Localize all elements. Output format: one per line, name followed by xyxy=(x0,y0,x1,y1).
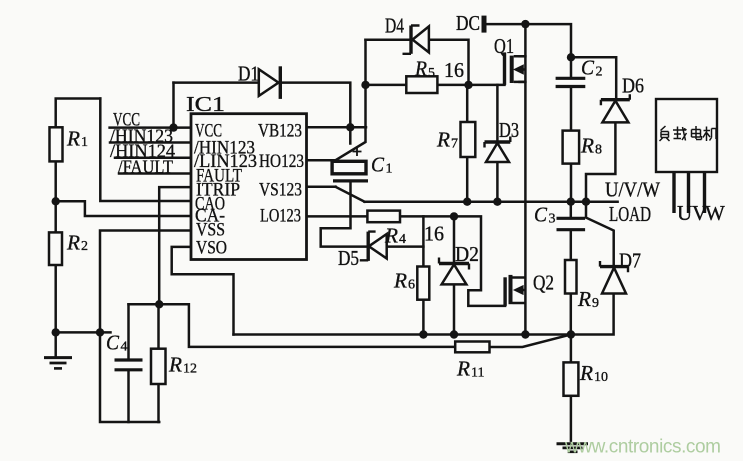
node VS/D3 xyxy=(493,198,501,206)
load motor CJK glyphs (drawn): 负载电机 xyxy=(660,126,718,141)
svg-text:R: R xyxy=(436,128,450,152)
glyph 载 xyxy=(673,127,687,141)
svg-text:C: C xyxy=(581,56,595,80)
wire D5 anode to R6 xyxy=(387,245,424,248)
node LO/D2 xyxy=(450,212,458,220)
wire D4 cathode link xyxy=(366,38,412,41)
svg-text:10: 10 xyxy=(594,370,608,385)
transistor Q1 xyxy=(505,52,526,85)
node VB/D1 xyxy=(346,123,354,131)
IC U1 box IC1 xyxy=(191,114,307,260)
resistor R12 xyxy=(151,349,166,384)
svg-text:12: 12 xyxy=(183,362,197,377)
zener D6 xyxy=(601,94,630,122)
wire C1 negative to D5 xyxy=(321,181,369,247)
svg-text:Q2: Q2 xyxy=(533,271,554,295)
node bus/R9/R10 xyxy=(567,330,575,338)
svg-text:U: U xyxy=(677,201,692,225)
wire VS line xyxy=(365,200,618,203)
svg-text:4: 4 xyxy=(399,232,406,247)
wire VS diagonal xyxy=(336,187,365,202)
svg-text:C: C xyxy=(534,203,548,227)
svg-text:R: R xyxy=(579,361,593,385)
wire D3 anode to VS xyxy=(496,162,499,202)
load motor box xyxy=(656,99,717,172)
wire C3 top lead xyxy=(570,202,573,219)
ground left xyxy=(44,358,72,369)
svg-text:D6: D6 xyxy=(622,74,644,98)
glyph 负 xyxy=(660,126,670,141)
wire D6 anode route to D7 xyxy=(586,122,615,266)
motor lead U xyxy=(672,172,675,213)
wire VCC input xyxy=(110,126,191,129)
resistor R7 xyxy=(461,122,476,157)
wire R10 chain xyxy=(570,335,573,441)
zener D3 xyxy=(485,137,511,163)
wire VCC up to D1 xyxy=(172,83,175,128)
node R12 top xyxy=(155,300,163,308)
svg-text:C: C xyxy=(106,331,120,355)
zener D2 xyxy=(439,258,469,285)
svg-text:/FAULT: /FAULT xyxy=(118,157,173,178)
wire R11 right diagonal xyxy=(490,335,571,348)
ground right xyxy=(557,444,589,452)
resistor R6 xyxy=(417,267,429,300)
wire C3/R9 chain xyxy=(570,230,573,335)
svg-text:LOAD: LOAD xyxy=(609,202,651,226)
resistor R4 xyxy=(367,211,400,223)
svg-text:5: 5 xyxy=(428,66,435,81)
svg-text:D2: D2 xyxy=(455,242,479,266)
wire R2 bottom stub xyxy=(56,331,111,334)
node C2 branch xyxy=(567,53,575,61)
svg-text:D4: D4 xyxy=(385,14,404,38)
svg-text:2: 2 xyxy=(81,239,88,254)
svg-text:R: R xyxy=(456,357,470,381)
wire D1 anode line xyxy=(174,81,259,84)
capacitor C3 xyxy=(557,218,586,229)
wire CA- step xyxy=(56,201,191,216)
wire /FAULT input xyxy=(119,172,191,175)
svg-text:8: 8 xyxy=(595,143,602,158)
svg-text:11: 11 xyxy=(471,366,484,381)
svg-text:1: 1 xyxy=(81,135,88,150)
node VS/C3 xyxy=(567,198,575,206)
svg-text:U/V/W: U/V/W xyxy=(605,178,660,202)
svg-text:3: 3 xyxy=(549,212,556,227)
wire C4/R12 node to R11 xyxy=(129,304,456,347)
capacitor C1 negative plate xyxy=(333,179,368,182)
wire VSS to ground rail xyxy=(100,231,191,423)
svg-text:IC1: IC1 xyxy=(186,92,225,116)
svg-text:D3: D3 xyxy=(499,118,519,142)
svg-text:1: 1 xyxy=(386,162,393,177)
wire R6 through xyxy=(422,216,425,334)
svg-text:VB123: VB123 xyxy=(258,121,302,142)
wire ground drop left xyxy=(54,332,57,357)
svg-text:www.cntronics.com: www.cntronics.com xyxy=(564,437,721,458)
svg-text:R: R xyxy=(168,353,182,377)
resistor R10 xyxy=(564,362,579,395)
wire ITRIP xyxy=(159,187,191,304)
svg-text:DC: DC xyxy=(456,11,480,35)
DIODES xyxy=(259,26,630,294)
diode D4 xyxy=(403,26,429,54)
zener D7 xyxy=(600,261,628,294)
wire R1 branch top xyxy=(56,99,101,202)
capacitor C4 xyxy=(115,360,143,370)
svg-text:Q1: Q1 xyxy=(494,34,514,58)
wire phase vertical xyxy=(524,24,527,334)
wire Q1 drain riser xyxy=(520,55,526,58)
wire VS123 pin xyxy=(307,186,336,189)
svg-text:D7: D7 xyxy=(619,249,641,273)
wire R7 through xyxy=(466,85,469,202)
wire R5 gate line xyxy=(366,84,505,87)
wire R2 chain xyxy=(54,201,57,332)
svg-text:R: R xyxy=(393,269,407,293)
wire C2/R8 chain xyxy=(570,87,573,202)
resistor R2 xyxy=(49,232,62,265)
wire VCC/CAO rail xyxy=(100,99,191,202)
wire D2 anode xyxy=(453,284,456,334)
diode D5 xyxy=(360,232,387,261)
svg-text:HO123: HO123 xyxy=(259,151,304,172)
node R2/ground xyxy=(52,328,60,336)
wire D4 anode link xyxy=(429,40,469,85)
node R5 left xyxy=(361,81,369,89)
wire DC rail xyxy=(484,24,571,78)
node bus/R6 xyxy=(419,330,427,338)
svg-text:R: R xyxy=(577,287,591,311)
wire VB123 pin xyxy=(307,126,367,129)
node R5 right xyxy=(464,81,472,89)
capacitor C1 positive plate box xyxy=(332,161,366,174)
svg-text:7: 7 xyxy=(451,137,458,152)
node VS/R7 xyxy=(463,198,471,206)
node R1/R2 xyxy=(52,197,60,205)
wire D1 cathode to VB node xyxy=(282,83,351,144)
svg-text:2: 2 xyxy=(596,65,603,80)
wire HO123 pin xyxy=(307,159,337,162)
MOSFETS xyxy=(505,52,526,306)
motor lead W xyxy=(703,172,706,213)
wire /HIN123 input xyxy=(110,141,191,144)
transistor Q2 xyxy=(505,275,525,306)
wire C4 top lead xyxy=(127,304,130,360)
wire R12 through xyxy=(157,304,160,422)
wire bottom bus xyxy=(234,294,614,335)
node bus/D2 xyxy=(450,330,458,338)
svg-text:W: W xyxy=(705,201,725,225)
svg-text:R: R xyxy=(414,57,427,81)
svg-text:R: R xyxy=(580,134,594,158)
resistor R5 xyxy=(406,76,437,93)
wire VSO route to bottom bus xyxy=(172,247,234,335)
svg-text:9: 9 xyxy=(592,296,599,311)
capacitor C2 xyxy=(556,78,586,86)
resistor R11 xyxy=(455,342,489,353)
resistor R1 xyxy=(50,127,63,161)
wire C4 bottom lead xyxy=(127,370,130,422)
wire LO123 gate drive xyxy=(307,216,506,306)
motor lead V xyxy=(687,172,690,213)
svg-text:C: C xyxy=(371,153,385,177)
svg-text:4: 4 xyxy=(121,340,128,355)
DC supply bar xyxy=(482,16,487,33)
svg-text:D1: D1 xyxy=(238,62,259,86)
svg-text:VSO: VSO xyxy=(196,238,227,259)
diode D1 xyxy=(259,66,281,99)
glyph 电 xyxy=(692,126,702,140)
glyph 机 xyxy=(703,127,718,142)
node VS/D6 xyxy=(582,198,590,206)
svg-text:R: R xyxy=(384,224,398,248)
svg-text:16: 16 xyxy=(424,222,444,246)
resistor R9 xyxy=(565,260,577,294)
node bus/Q2 source xyxy=(521,330,529,338)
wire D2 drop xyxy=(453,216,456,263)
svg-text:VS123: VS123 xyxy=(259,180,302,201)
wire /HIN124 input xyxy=(115,156,191,159)
wire HO node vertical + diagonal xyxy=(335,40,366,161)
svg-text:6: 6 xyxy=(408,278,415,293)
svg-text:D5: D5 xyxy=(338,246,359,270)
svg-text:R: R xyxy=(66,127,80,151)
node DC rail / Q1 drain xyxy=(521,20,529,28)
svg-text:16: 16 xyxy=(444,58,464,82)
node VSS rail xyxy=(96,328,104,336)
node VCC/D1 xyxy=(169,123,177,131)
wire D3 drop from gate line xyxy=(496,85,499,142)
plus sign of C1 xyxy=(353,147,362,156)
wire rail to D6 xyxy=(571,57,616,99)
resistor R8 xyxy=(563,131,580,164)
svg-text:LO123: LO123 xyxy=(260,206,301,227)
svg-text:R: R xyxy=(66,231,80,255)
wire Q1 source lead xyxy=(520,81,526,84)
